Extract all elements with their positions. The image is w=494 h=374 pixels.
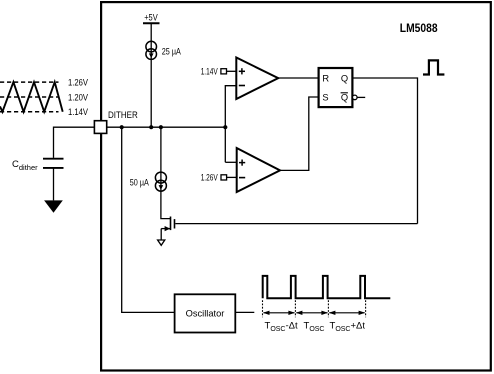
pin 1.26V reference (square terminal) [221, 175, 227, 180]
wire Qbar stub [357, 96, 365, 98]
svg-text:1.26V: 1.26V [68, 78, 88, 88]
wire capacitor to ground [53, 168, 55, 201]
wire 1.26V pin to comparator U2 inverting input [227, 176, 237, 178]
svg-text:+5V: +5V [144, 13, 158, 23]
svg-text:Oscillator: Oscillator [186, 309, 225, 319]
annotation: dither triangle waveform dashed level 1.26V [0, 81, 59, 83]
wire DITHER node bus [107, 126, 226, 128]
annotation: dashed extension line 3 [327, 300, 329, 317]
annotation: dither triangle waveform dashed level 1.20V [0, 96, 59, 98]
svg-text:LM5088: LM5088 [400, 21, 438, 35]
inverting bubble on Qbar output [353, 95, 358, 100]
RS latch U3 [319, 68, 353, 107]
svg-text:1.20V: 1.20V [68, 92, 88, 102]
ground (open triangle) at Q1 source [158, 240, 165, 245]
pin DITHER (square terminal on box edge) [94, 121, 106, 134]
op-amp U1 (top comparator) [236, 58, 278, 100]
svg-text:TOSC-Δt: TOSC-Δt [265, 321, 298, 333]
node junction dot (25uA branch) [149, 125, 153, 129]
node junction dot (oscillator branch) [120, 125, 124, 129]
wire latch Q output to MOSFET gate [352, 78, 417, 224]
annotation: dimension arrow Tosc+dt [329, 311, 365, 315]
op-amp U2 (bottom comparator) [237, 148, 280, 192]
supply rail +5V bar [143, 22, 160, 24]
wire oscillator output stub [235, 311, 254, 313]
annotation: dither triangle waveform dashed level 1.14V [0, 111, 59, 113]
annotation: triangle wave trace [0, 82, 63, 112]
annotation: oscillator pulse train waveform [263, 276, 391, 298]
svg-text:50 µA: 50 µA [130, 178, 149, 188]
wire DITHER node to oscillator input [122, 127, 175, 312]
annotation: dashed extension line 2 [294, 300, 296, 317]
annotation: output pulse symbol [423, 60, 444, 74]
svg-text:Q: Q [341, 93, 348, 103]
svg-text:R: R [322, 73, 329, 83]
node junction dot (comparator inputs branch) [223, 125, 227, 129]
annotation: dashed extension line 4 [365, 300, 367, 317]
current source I2 50uA (two circles with down arrow) [155, 172, 166, 191]
node junction dot (50uA branch) [159, 125, 163, 129]
wire U2 non-inverting input to DITHER node [225, 161, 236, 163]
current source I1 25uA (two circles with down arrow) [146, 41, 157, 59]
svg-text:1.14V: 1.14V [68, 107, 88, 117]
svg-text:1.26V: 1.26V [201, 172, 218, 182]
transistor Q1 N-MOSFET [161, 217, 174, 241]
svg-text:Cdither: Cdither [12, 159, 38, 172]
capacitor Cdither [43, 159, 64, 168]
pin 1.14V reference (square terminal) [221, 69, 227, 74]
wire U1 inverting input to DITHER node [225, 86, 236, 163]
svg-text:1.14V: 1.14V [201, 66, 218, 76]
oscillator block [175, 294, 236, 332]
wire DITHER node through current source I2 down to MOSFET drain [161, 127, 171, 218]
annotation: dimension arrow Tosc [296, 311, 328, 315]
wire +5V rail through current source I1 down to DITHER node bus [150, 23, 152, 127]
wire 1.14V pin to comparator U1 non-inverting input [227, 70, 237, 72]
annotation: dimension arrow Tosc-dt [263, 311, 295, 315]
svg-text:25 µA: 25 µA [162, 46, 181, 56]
svg-text:S: S [322, 93, 328, 103]
annotation: dashed extension line 1 [262, 300, 264, 317]
svg-text:TOSC: TOSC [304, 321, 325, 333]
wire DITHER pin to capacitor Cdither [54, 127, 95, 158]
svg-text:Q: Q [341, 73, 348, 83]
wire U1 output to latch R input [278, 77, 318, 79]
svg-text:TOSC+Δt: TOSC+Δt [330, 321, 366, 333]
label Qbar (Q with overline) [341, 93, 349, 103]
ground (filled triangle) below Cdither [44, 200, 63, 212]
IC boundary box U-LM5088 [101, 2, 491, 370]
wire U2 output to latch S input [280, 97, 319, 170]
wire MOSFET gate line [175, 223, 417, 225]
svg-text:DITHER: DITHER [108, 110, 138, 120]
